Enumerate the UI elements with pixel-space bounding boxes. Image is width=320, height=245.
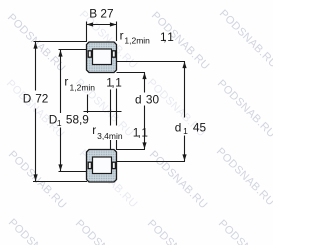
dimension D1: label "D1 58,9"	[49, 112, 89, 128]
bearing lower section: roller (white)	[93, 157, 112, 174]
leader line A lower segment	[110, 140, 112, 150]
svg-text:,: ,	[111, 75, 114, 89]
dimension d1: top extension line	[117, 61, 186, 63]
dimension D: dimension line upper segment	[35, 42, 37, 91]
dimension d1: bottom extension line	[117, 161, 186, 163]
radius value 1,1 (top)	[160, 30, 174, 44]
dimension d: top extension line (upper bore line)	[117, 72, 146, 74]
svg-text:r: r	[64, 75, 68, 89]
watermark row2 col1	[4, 78, 67, 141]
svg-text:1: 1	[167, 30, 174, 44]
dimension D: label "D 72"	[23, 92, 49, 106]
svg-text:d: d	[175, 120, 182, 134]
svg-text:1: 1	[115, 75, 122, 89]
dimension B: right extension line	[116, 22, 118, 42]
watermark row4 col3	[145, 218, 208, 245]
dimension d: bottom arrowhead	[142, 142, 146, 149]
radius label r1,2min (middle, inner ring chamfer)	[64, 75, 95, 93]
watermark row4 col2	[73, 218, 136, 245]
watermark row3 col4	[214, 146, 277, 209]
dimension d1: label "d1 45"	[175, 120, 207, 136]
svg-text:27: 27	[100, 7, 113, 21]
radius value 1,1 (middle)	[106, 75, 121, 89]
radius value 1,1 (bottom)	[133, 125, 148, 139]
svg-text:1: 1	[183, 126, 188, 136]
bearing upper section: left cage pocket	[88, 51, 91, 57]
watermark row4 col1	[6, 217, 69, 245]
dimension D1: bottom extension line	[59, 171, 88, 173]
svg-text:PODSNAB.RU: PODSNAB.RU	[6, 149, 69, 212]
dimension d1: bottom arrowhead	[182, 154, 186, 161]
dimension B: left arrowhead	[87, 22, 94, 26]
dimension D: bottom arrowhead	[33, 174, 37, 181]
bearing lower section: right cage pocket	[112, 162, 115, 168]
svg-text:r: r	[92, 123, 96, 137]
watermark row3 col3	[147, 149, 210, 212]
svg-text:r: r	[120, 29, 124, 43]
watermark row1 col1	[5, 12, 68, 75]
svg-text:58,9: 58,9	[66, 112, 89, 126]
bent leader line from r1,2min middle label: vertical part	[87, 95, 89, 114]
watermark row3 col1	[6, 149, 69, 212]
radius label r1,2min (top, outer ring chamfer)	[120, 29, 151, 46]
svg-text:3,4min: 3,4min	[97, 131, 123, 141]
watermark row4 col4	[216, 218, 279, 245]
radius label r3,4min (inner ring flange chamfer)	[92, 123, 123, 141]
svg-text:,: ,	[163, 30, 166, 44]
bearing upper section: right cage pocket	[112, 51, 115, 57]
dimension B: right arrowhead	[110, 22, 117, 26]
dimension d: label "d 30"	[135, 93, 159, 107]
dimension D1: bottom arrowhead	[58, 164, 62, 171]
watermark row2 col3	[145, 77, 208, 140]
svg-text:d: d	[135, 93, 142, 107]
svg-text:PODSNAB.RU: PODSNAB.RU	[145, 218, 208, 245]
dimension D1: top arrowhead	[58, 50, 62, 57]
svg-text:PODSNAB.RU: PODSNAB.RU	[216, 218, 273, 245]
watermark row1 col3	[149, 10, 212, 73]
svg-text:1,2min: 1,2min	[124, 36, 150, 46]
dimension D1: dimension line upper segment	[60, 50, 62, 113]
dimension D: dimension line lower segment	[35, 109, 37, 182]
svg-text:PODSNAB.RU: PODSNAB.RU	[147, 149, 210, 212]
svg-text:B: B	[89, 7, 97, 21]
dimension d1: dimension line upper segment	[184, 62, 186, 118]
svg-text:PODSNAB.RU: PODSNAB.RU	[215, 78, 273, 141]
svg-text:30: 30	[146, 93, 160, 107]
svg-text:PODSNAB.RU: PODSNAB.RU	[6, 217, 69, 245]
watermark row2 col2	[73, 77, 136, 140]
dimension d1: top arrowhead	[182, 62, 186, 69]
dimension d: top arrowhead	[142, 73, 146, 80]
dimension D: bottom extension line	[33, 181, 87, 183]
dimension D: top extension line	[34, 41, 88, 43]
dimension D: top arrowhead	[33, 42, 37, 49]
svg-text:72: 72	[35, 92, 48, 106]
dimension B: left extension line	[86, 22, 88, 42]
svg-text:D: D	[23, 92, 32, 106]
watermark row1 col2	[77, 9, 140, 72]
bearing upper section: roller (white)	[93, 49, 112, 65]
leader line B lower segment	[116, 140, 118, 150]
watermark row1 col4	[217, 8, 280, 71]
dimension d1: dimension line lower segment	[184, 136, 186, 162]
watermark row2 col4	[215, 78, 278, 141]
svg-text:PODSNAB.RU: PODSNAB.RU	[149, 10, 212, 73]
dimension D1: dimension line lower segment	[60, 128, 62, 172]
dimension d: bottom extension line (lower bore line)	[117, 149, 146, 151]
svg-text:PODSNAB.RU: PODSNAB.RU	[214, 146, 273, 209]
bearing lower section: rings body (chamfered)	[87, 150, 117, 183]
bearing lower section: left cage pocket	[88, 162, 91, 168]
bent leader line from r1,2min middle label: horizontal part	[84, 111, 122, 113]
leader line A (from 1,1 middle) upper segment	[110, 90, 112, 126]
svg-text:PODSNAB.RU: PODSNAB.RU	[5, 12, 68, 75]
svg-text:PODSNAB.RU: PODSNAB.RU	[73, 218, 136, 245]
dimension d: dimension line upper segment	[144, 73, 146, 93]
svg-text:1: 1	[141, 125, 148, 139]
svg-text:,: ,	[138, 125, 141, 139]
svg-text:1,2min: 1,2min	[70, 83, 96, 93]
watermark row3 col2	[77, 148, 140, 211]
svg-text:1: 1	[57, 118, 62, 128]
dimension D1: top extension line	[59, 49, 88, 51]
svg-text:PODSNAB.RU: PODSNAB.RU	[217, 8, 273, 71]
svg-text:45: 45	[193, 120, 207, 134]
dimension B: dimension line	[87, 24, 117, 26]
dimension d: dimension line lower segment	[144, 106, 146, 150]
dimension B: label "B 27"	[89, 7, 113, 21]
bearing upper section: rings body (chamfered)	[87, 42, 117, 73]
leader line B (from 1,1 middle) upper segment	[116, 89, 118, 126]
